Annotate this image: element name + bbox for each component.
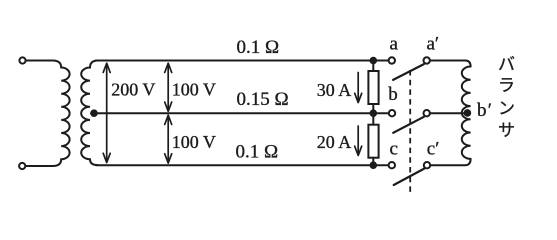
wire: balancer bottom to c' xyxy=(430,159,470,165)
wire: bottom terminal to primary xyxy=(26,165,53,167)
wire: b' to balancer tap xyxy=(430,112,464,114)
wire: top terminal to primary xyxy=(26,60,53,62)
switch a fixed contact xyxy=(389,57,395,63)
switch c fixed contact xyxy=(389,162,395,168)
30 A current arrow xyxy=(355,73,362,103)
label balancer (katakana vertical) xyxy=(498,55,515,140)
svg-text:0.15 Ω: 0.15 Ω xyxy=(237,89,289,110)
switch a pivot contact a' xyxy=(424,57,430,63)
switch c blade xyxy=(394,169,425,185)
wire: node b to load R-bc xyxy=(372,113,374,125)
switch b pivot contact b' xyxy=(424,110,430,116)
100 V upper measurement arrow xyxy=(165,63,172,111)
switch c pivot contact c' xyxy=(424,162,430,168)
secondary center-tap dot xyxy=(90,109,98,117)
load resistor box between a and b xyxy=(368,71,378,104)
load resistor box between b and c xyxy=(368,125,378,158)
switch b fixed contact xyxy=(389,110,395,116)
input terminal top-left xyxy=(19,57,25,63)
svg-text:c: c xyxy=(390,139,398,160)
wire: top rail 0.1 ohm line xyxy=(96,60,389,62)
svg-text:ン: ン xyxy=(498,99,515,118)
svg-text:a′: a′ xyxy=(427,34,440,55)
input terminal bottom-left xyxy=(19,163,25,169)
switch b blade xyxy=(393,117,424,133)
wire: load R-bc to node c xyxy=(372,158,374,166)
transformer secondary winding xyxy=(81,61,97,166)
svg-text:100 V: 100 V xyxy=(172,132,216,152)
svg-text:サ: サ xyxy=(498,121,515,140)
balancer winding xyxy=(462,67,471,159)
20 A current arrow xyxy=(355,126,362,156)
svg-text:ラ: ラ xyxy=(498,76,515,95)
svg-text:b: b xyxy=(388,84,398,105)
node a dot xyxy=(370,57,378,65)
svg-text:0.1 Ω: 0.1 Ω xyxy=(237,37,280,58)
wire: node a to load R-ab xyxy=(372,61,374,72)
ganged switch link (dashed) xyxy=(409,70,411,192)
svg-text:100 V: 100 V xyxy=(172,80,216,100)
svg-text:20 A: 20 A xyxy=(317,132,352,152)
200 V measurement arrow xyxy=(103,63,110,162)
svg-text:30 A: 30 A xyxy=(317,80,352,100)
svg-text:b′: b′ xyxy=(477,100,493,121)
node c dot xyxy=(370,161,378,169)
wire: a' to balancer top xyxy=(430,61,471,67)
svg-text:200 V: 200 V xyxy=(111,80,155,100)
wire: load R-ab to node b xyxy=(372,104,374,113)
svg-text:c′: c′ xyxy=(427,139,440,160)
switch a blade xyxy=(393,64,424,80)
svg-text:a: a xyxy=(390,34,399,55)
balancer center-tap dot b' xyxy=(464,109,472,117)
node b dot xyxy=(370,109,378,117)
100 V lower measurement arrow xyxy=(165,115,172,163)
svg-text:0.1 Ω: 0.1 Ω xyxy=(236,142,279,163)
transformer primary winding xyxy=(53,61,70,167)
svg-text:バ: バ xyxy=(498,55,515,74)
wire: middle rail 0.15 ohm line xyxy=(91,112,389,114)
wire: bottom rail 0.1 ohm line xyxy=(96,164,389,166)
